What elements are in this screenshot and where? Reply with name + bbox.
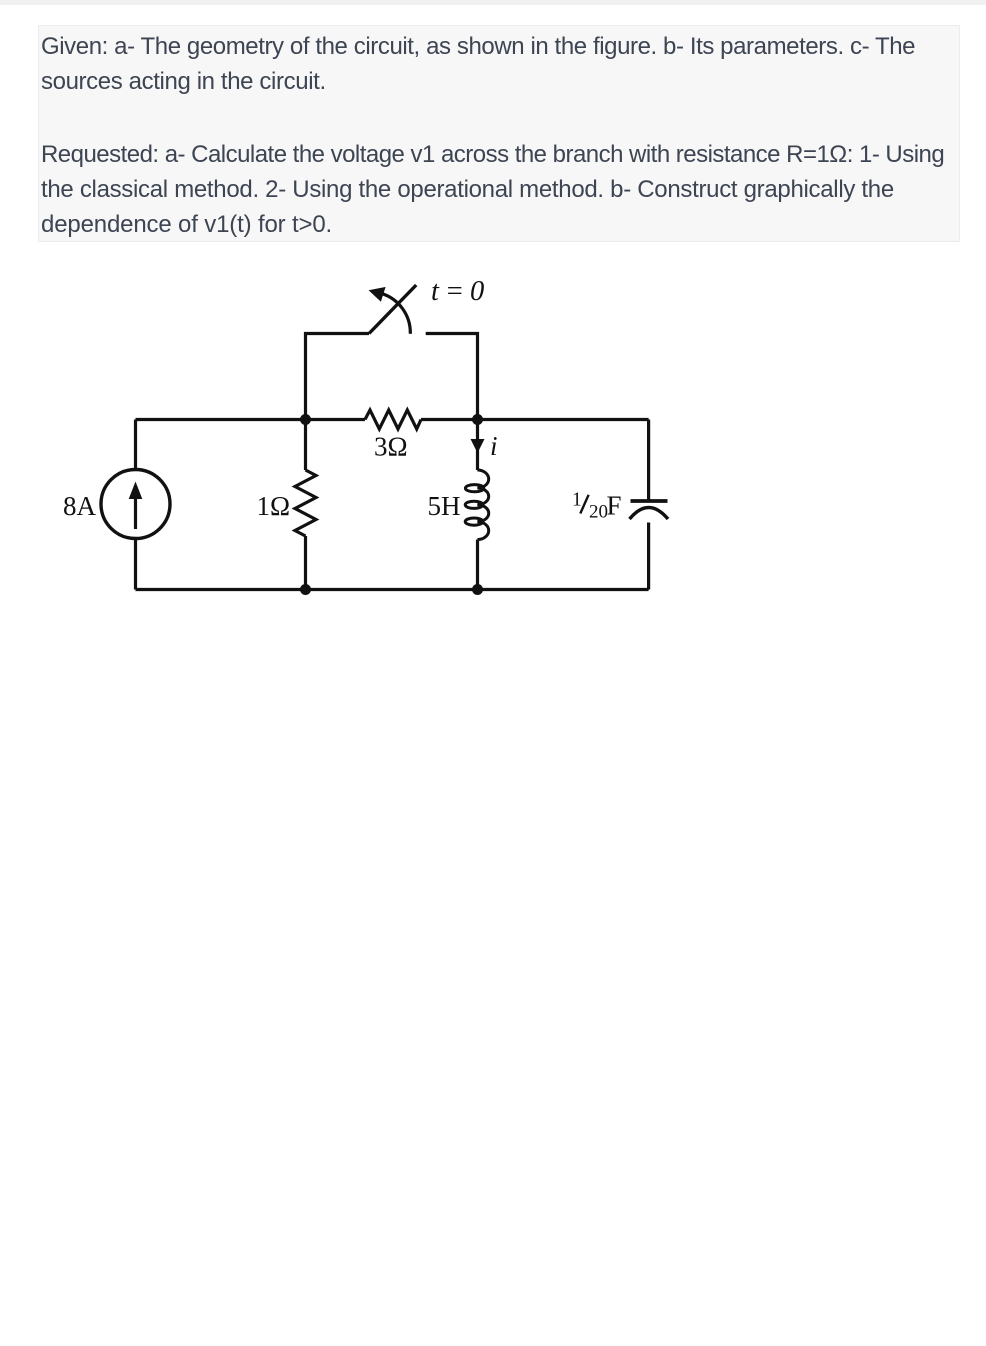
svg-text:1Ω: 1Ω (257, 491, 291, 521)
svg-text:F: F (607, 491, 622, 521)
svg-text:5H: 5H (428, 491, 461, 521)
svg-text:20: 20 (589, 502, 608, 523)
svg-text:8A: 8A (63, 491, 97, 521)
svg-text:1: 1 (572, 490, 582, 511)
svg-text:t = 0: t = 0 (431, 276, 484, 307)
svg-text:3Ω: 3Ω (374, 432, 408, 462)
svg-text:i: i (490, 431, 498, 461)
